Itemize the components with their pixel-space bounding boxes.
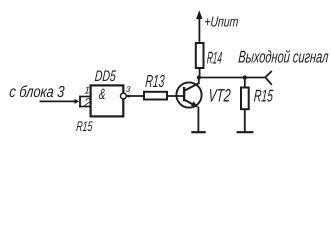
output open arrowhead (265, 71, 272, 85)
svg-text:VT2: VT2 (208, 86, 232, 106)
resistor R15 (right) (241, 88, 249, 110)
svg-text:R13: R13 (145, 71, 166, 91)
svg-text:R15: R15 (253, 87, 274, 106)
node collector junction (197, 75, 201, 79)
node R15 junction (243, 75, 247, 79)
svg-text:Выходной сигнал: Выходной сигнал (238, 48, 330, 67)
wire gate output to R13 (126, 95, 144, 97)
wire R14 bottom lead (199, 68, 201, 78)
supply arrowhead (196, 10, 202, 19)
transistor VT2 collector diagonal (185, 83, 199, 90)
wire R15 bottom lead (244, 109, 246, 131)
svg-text:DD5: DD5 (94, 68, 117, 85)
ground bar under R15 (237, 131, 254, 133)
resistor R13 (144, 92, 167, 100)
transistor VT2 base bar (183, 87, 185, 101)
wire pin 1 stub (79, 96, 91, 98)
wire pin 2 stub (79, 106, 91, 108)
wire output line (199, 77, 265, 79)
resistor R14 (196, 43, 204, 68)
wire emitter vertical (197, 107, 199, 132)
gate output inversion bubble (121, 93, 127, 99)
svg-text:&: & (98, 86, 106, 103)
input arrowhead (75, 99, 80, 104)
transistor VT2 circle (176, 82, 201, 107)
wire R13 to base (167, 95, 184, 97)
wire supply lead (198, 19, 200, 44)
node dot after bubble (128, 95, 131, 98)
ground bar under emitter (191, 131, 205, 133)
svg-text:с блока 3: с блока 3 (9, 84, 65, 101)
wire collector vertical (198, 78, 200, 85)
transistor VT2 emitter arrowhead (191, 101, 198, 107)
svg-text:R14: R14 (206, 49, 222, 68)
gate DD5 body (91, 85, 124, 116)
node pin-split vertical (79, 96, 81, 108)
transistor VT2 emitter diagonal (185, 100, 197, 107)
svg-text:R15: R15 (76, 118, 93, 134)
wire input (40, 100, 76, 102)
svg-text:+Uпит: +Uпит (204, 15, 239, 31)
wire R15 top lead (244, 78, 246, 88)
